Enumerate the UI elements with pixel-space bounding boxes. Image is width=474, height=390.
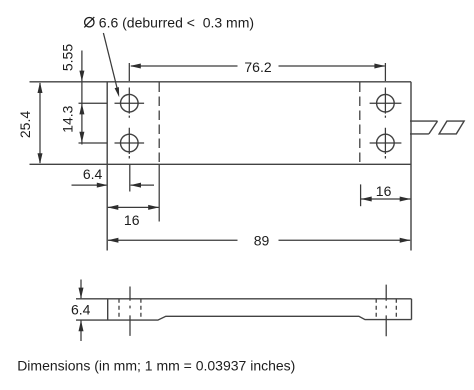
side view top edge with left extension	[76, 298, 412, 300]
dimension 5.55	[60, 44, 85, 145]
side view right hole centerline	[385, 285, 387, 337]
dashed clamp line left	[158, 83, 160, 165]
hole top-left	[121, 94, 139, 112]
svg-text:89: 89	[254, 232, 270, 248]
dashed clamp line right	[359, 83, 361, 165]
side view left end face	[107, 299, 109, 320]
dimension 16 left	[108, 164, 160, 228]
dimension 6.4 side view	[71, 280, 91, 342]
hole callout diameter symbol	[84, 17, 94, 27]
cable break parallelogram	[439, 121, 464, 134]
svg-text:6.6 (deburred < 0.3 mm): 6.6 (deburred < 0.3 mm)	[99, 15, 254, 31]
svg-text:16: 16	[376, 183, 392, 199]
plan view right edge plus lower extension line	[410, 82, 412, 251]
side view right end face	[411, 299, 413, 320]
crosshair horizontal top-right hole	[370, 102, 402, 104]
dimension 76.2	[129, 59, 385, 81]
plan view left edge plus lower extension line	[106, 82, 108, 251]
dimension 16 right	[361, 183, 411, 206]
hole bottom-left	[121, 134, 139, 152]
centerline right hole column	[384, 88, 386, 159]
crosshair horizontal bottom-left hole	[115, 142, 145, 144]
svg-text:25.4: 25.4	[17, 111, 33, 138]
dimension 25.4	[17, 82, 43, 164]
hole top-right	[377, 94, 395, 112]
svg-text:14.3: 14.3	[60, 105, 76, 132]
svg-text:6.4: 6.4	[83, 166, 103, 182]
plan view bottom edge with left extension	[30, 163, 412, 165]
centerline left hole column	[128, 88, 130, 159]
hole callout leader	[103, 33, 117, 89]
hole callout leader arrowhead	[115, 87, 120, 97]
cable exit lines	[410, 121, 438, 134]
side view left hole centerline	[129, 287, 131, 336]
side view hidden hole left edges	[118, 299, 120, 320]
crosshair horizontal bottom-right hole	[370, 142, 402, 144]
dimension 14.3	[60, 103, 108, 143]
crosshair horizontal top-left hole	[115, 102, 145, 104]
svg-text:16: 16	[124, 212, 140, 228]
dimension 89	[108, 232, 411, 248]
svg-text:6.4: 6.4	[71, 302, 91, 318]
dimension 6.4 plan	[72, 164, 155, 191]
hole bottom-right	[377, 134, 395, 152]
svg-text:Dimensions (in mm; 1 mm = 0.03: Dimensions (in mm; 1 mm = 0.03937 inches…	[17, 357, 295, 373]
svg-text:76.2: 76.2	[244, 59, 271, 75]
plan view top edge with left extension	[30, 81, 412, 83]
svg-text:5.55: 5.55	[60, 44, 76, 71]
side view bottom profile with left extension	[76, 316, 412, 320]
side view hidden hole right edges	[375, 299, 377, 320]
